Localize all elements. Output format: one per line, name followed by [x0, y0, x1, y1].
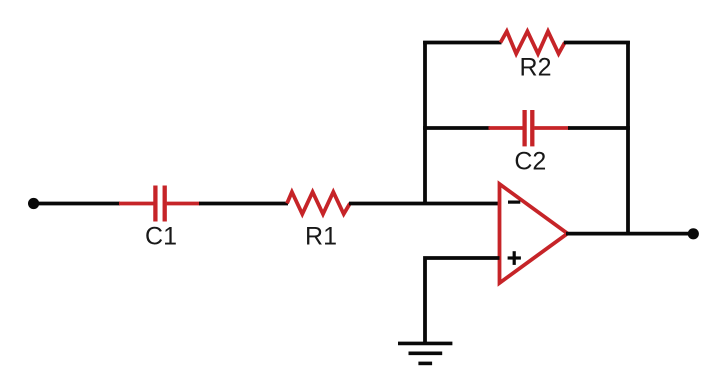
svg-text:R1: R1 [305, 223, 337, 251]
wire C1 to R1 [199, 202, 288, 206]
op-amp U1 [500, 184, 568, 283]
wire feedback right vertical [626, 41, 630, 234]
capacitor C1 [119, 186, 200, 222]
output node dot [688, 228, 699, 239]
op-amp inverting input marker (-) [508, 201, 520, 204]
input node dot [28, 198, 39, 209]
svg-text:R2: R2 [520, 54, 552, 82]
wire top feedback left segment [423, 41, 501, 45]
resistor R1 [287, 192, 350, 214]
wire feedback left vertical [423, 41, 427, 204]
svg-text:C1: C1 [145, 223, 177, 251]
svg-text:C2: C2 [514, 148, 546, 176]
wire op-amp output [566, 232, 693, 236]
resistor R2 [501, 31, 565, 53]
wire input to C1 [34, 202, 120, 206]
wire R1 to op-amp inverting input [349, 202, 501, 206]
wire ground to non-inverting input [425, 258, 500, 343]
capacitor C2 [489, 110, 570, 146]
wire C2 branch right [568, 126, 630, 130]
wire C2 branch left [423, 126, 490, 130]
op-amp non-inverting input marker (+) [508, 251, 521, 265]
ground [398, 343, 452, 363]
wire top feedback right segment [564, 41, 630, 45]
